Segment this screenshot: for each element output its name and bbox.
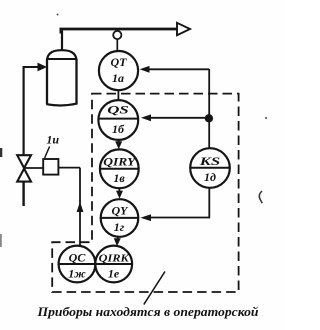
svg-text:1ж: 1ж [68,267,86,281]
wire: inlet line into vessel [24,66,39,68]
instrument QIRK 1е [95,246,132,283]
speck left edge upper [0,148,2,157]
speck top-left [57,14,59,16]
wire: signal line from QC up to valve actuator [58,168,80,248]
wire: QT to QS [117,90,119,100]
leader: slash through boundary to caption [144,272,165,305]
wire: feed pipe left vertical [23,66,25,156]
svg-text:QIRY: QIRY [103,155,137,169]
wire: QIRY to QY with arrow [118,188,120,191]
valve: control valve body (two triangles) [17,155,31,168]
arrow: up arrowhead on signal line [77,202,84,212]
node: junction dot [205,114,213,122]
wire: junction to QS with arrow [150,117,209,119]
svg-text:1и: 1и [46,133,59,147]
instrument QY 1г [101,199,139,237]
label 1и leader line [45,147,50,159]
svg-text:1д: 1д [204,170,216,184]
boundary: dashed operator-room border [52,94,238,292]
speck right margin dot [265,117,267,119]
instrument QC 1ж [59,246,96,283]
wire: QY to QIRK with arrow [117,237,119,239]
speck left edge lower [0,234,2,247]
actuator 1и: square diaphragm symbol [43,159,58,175]
instrument QIRY 1в [100,149,139,188]
wire: junction to QT with arrow [148,68,209,70]
wire: impulse line from sample point to QT [116,39,118,51]
wire: valve stem to actuator [24,167,43,169]
node: sample point circle on product line [113,31,121,39]
svg-text:1в: 1в [113,171,125,185]
wire: top product line to flare [60,28,178,31]
arrow: filled arrowhead into vessel [38,63,48,72]
speck right margin hook [259,191,262,203]
svg-text:QIRK: QIRK [99,253,130,265]
wire: QS to QIRY with arrow [118,140,120,143]
svg-text:QT: QT [111,55,128,69]
wire: vessel riser to product line [61,30,63,51]
wire: KS riser up to junction [208,69,210,148]
vessel V1 [47,59,77,105]
wire: KS down and left to QY with arrow [150,188,209,218]
svg-text:Приборы находятся в операторск: Приборы находятся в операторской [36,304,258,319]
svg-text:1а: 1а [112,71,124,85]
wire: pipe below valve [22,181,24,206]
svg-text:1е: 1е [108,267,120,281]
instrument KS 1д [190,148,230,188]
svg-text:KS: KS [198,154,220,168]
svg-text:1б: 1б [112,122,125,136]
svg-text:QY: QY [112,204,130,218]
instrument QT 1а (field transmitter) [99,51,138,90]
arrow: open arrowhead on product line [177,23,190,35]
instrument QS 1б [98,100,138,140]
svg-text:QS: QS [107,103,129,117]
svg-text:QC: QC [69,251,87,265]
svg-text:1г: 1г [114,220,125,234]
